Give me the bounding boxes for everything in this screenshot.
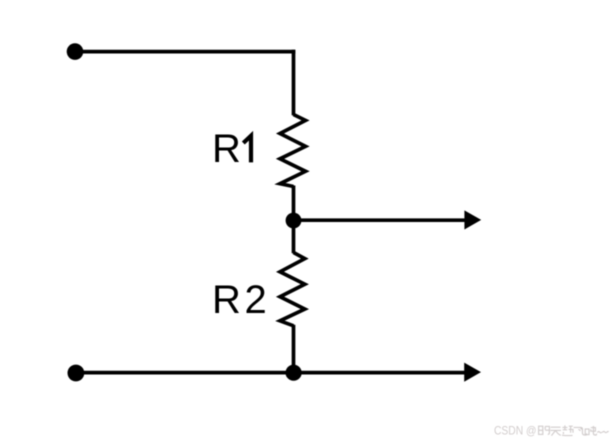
node: bottom junction dot (286, 365, 302, 381)
resistor R1 (280, 115, 306, 187)
svg-text:CSDN @: CSDN @ (494, 424, 537, 438)
svg-text:R: R (212, 278, 241, 322)
watermark glyph 吧 (585, 426, 596, 435)
svg-text:R: R (212, 127, 241, 171)
node: output junction dot (286, 213, 302, 229)
wire: top-right vertical drop to R1 (292, 50, 296, 115)
wire: R1 bottom to output junction (292, 186, 296, 222)
watermark tildes ~~~ (597, 431, 608, 432)
node: bottom-left terminal dot (68, 365, 85, 382)
node: top-left input terminal dot (67, 43, 84, 60)
svg-text:2: 2 (245, 278, 267, 322)
wire: junction down to R2 top (292, 220, 296, 253)
watermark glyph 起 (562, 425, 573, 435)
arrow: output terminal arrowhead (464, 210, 481, 229)
watermark: CSDN @明天起飞吧~~~ (494, 424, 537, 438)
wire: output horizontal to arrow (294, 218, 467, 222)
watermark glyph 明 (539, 426, 550, 434)
resistor R2 (280, 253, 305, 326)
arrow: bottom terminal arrowhead (464, 363, 481, 382)
wire: bottom horizontal rail (76, 371, 466, 375)
wire: R2 bottom to bottom rail (292, 325, 296, 373)
watermark glyph 天 (550, 427, 561, 435)
wire: top horizontal rail (75, 50, 295, 54)
watermark glyph 飞 (574, 427, 587, 435)
label R1 digit 1 (243, 136, 251, 163)
